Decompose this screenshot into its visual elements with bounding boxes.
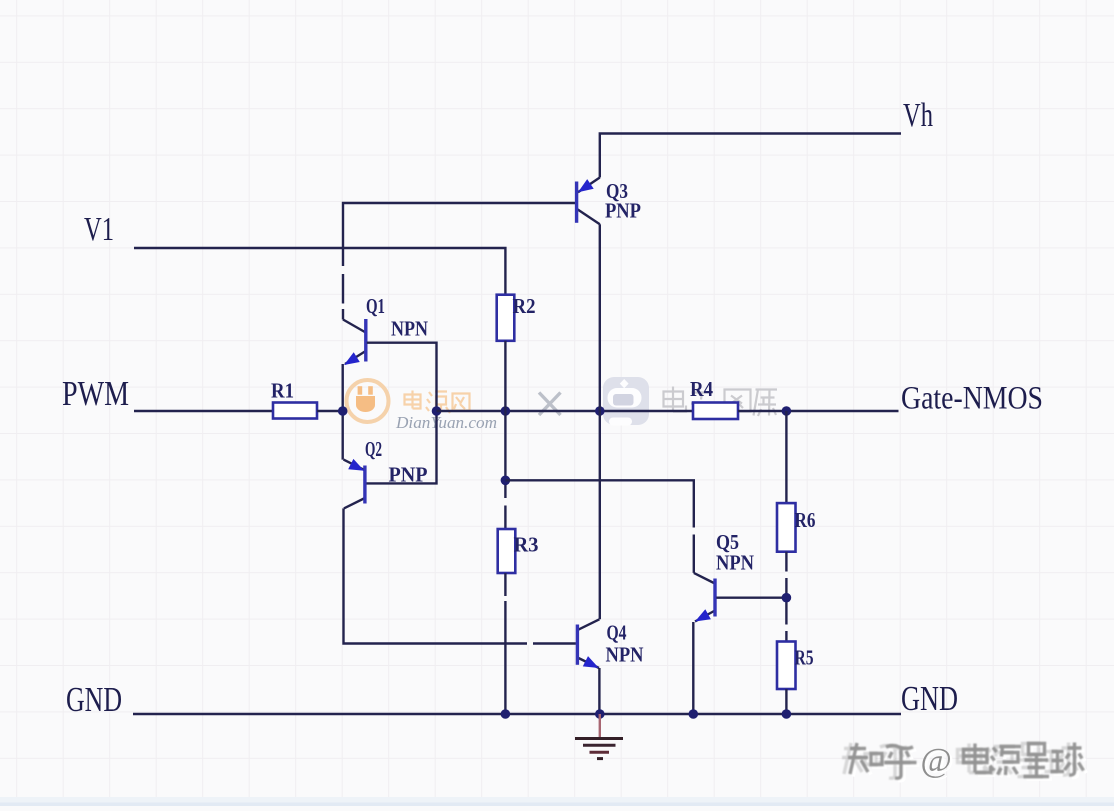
wire V1 to R2 top bbox=[134, 248, 505, 295]
wire R4 to Gate-NMOS bbox=[738, 410, 899, 412]
svg-text:R3: R3 bbox=[514, 533, 539, 557]
junction R2/R3 node bbox=[501, 476, 511, 486]
junction GND rail Q4 bbox=[595, 709, 605, 719]
wire Q3 emitter to Vh bbox=[600, 134, 901, 178]
wire Q5 base to R5/R6 node bbox=[716, 597, 786, 599]
bottom bar bbox=[0, 797, 1114, 806]
svg-text:Vh: Vh bbox=[903, 97, 933, 134]
junction node A bbox=[338, 406, 348, 416]
watermark text gallery bbox=[664, 387, 778, 418]
wire node B to R4 bbox=[437, 410, 694, 412]
watermark dianyuan logo bbox=[347, 380, 389, 422]
resistor R4 bbox=[690, 377, 738, 419]
junction Q3 collector column at main rail bbox=[595, 406, 605, 416]
wire R1 to node A bbox=[317, 410, 340, 412]
wire Q2 collector to Q4 base bbox=[344, 508, 576, 643]
wire Q1 base to Q2 base bbox=[366, 343, 436, 484]
junction Q5 base node bbox=[782, 593, 792, 603]
transistor Q1 bbox=[343, 294, 428, 365]
watermark cross mark bbox=[539, 393, 561, 416]
svg-text:GND: GND bbox=[901, 679, 958, 718]
wire Q3 collector to Q4 collector bbox=[599, 224, 601, 619]
svg-text:NPN: NPN bbox=[716, 551, 754, 575]
svg-text:R4: R4 bbox=[690, 377, 713, 401]
junction GND rail Q5 bbox=[689, 709, 699, 719]
svg-text:GND: GND bbox=[66, 680, 122, 719]
wire R6 bottom to R5 top bbox=[785, 552, 787, 642]
watermark robot icon bbox=[603, 377, 649, 426]
watermark zhihu bbox=[851, 745, 1087, 781]
svg-text:PWM: PWM bbox=[62, 374, 129, 413]
svg-text:Q4: Q4 bbox=[607, 621, 627, 645]
resistor R3 bbox=[498, 529, 539, 573]
wire Q5 emitter to GND rail bbox=[692, 622, 694, 714]
svg-text:R1: R1 bbox=[271, 379, 294, 403]
wire node A vertical (Q1 emitter to Q2 emitter) bbox=[342, 364, 344, 460]
transistor Q2 bbox=[344, 437, 428, 508]
wire R5 bottom to GND rail bbox=[785, 689, 787, 714]
wire Q1 collector to Q3 base bbox=[343, 203, 576, 320]
svg-text:PNP: PNP bbox=[389, 463, 428, 487]
resistor R6 bbox=[777, 503, 816, 552]
svg-text:R2: R2 bbox=[513, 294, 536, 318]
svg-text:R5: R5 bbox=[795, 646, 814, 670]
wire Q4 emitter to GND rail bbox=[598, 668, 600, 714]
wire R2 bottom to R3 top bbox=[504, 341, 506, 529]
resistor R2 bbox=[497, 294, 536, 341]
svg-text:Gate-NMOS: Gate-NMOS bbox=[901, 381, 1043, 417]
svg-text:Q2: Q2 bbox=[365, 437, 382, 461]
ground symbol bbox=[575, 714, 623, 759]
transistor Q3 bbox=[577, 178, 642, 225]
svg-text:NPN: NPN bbox=[606, 643, 644, 667]
wire pin gaps bbox=[343, 266, 786, 644]
svg-text:PNP: PNP bbox=[605, 199, 641, 223]
watermark text dianyuan bbox=[405, 391, 470, 414]
svg-text:NPN: NPN bbox=[391, 317, 428, 341]
resistor R1 bbox=[271, 379, 317, 419]
svg-text:V1: V1 bbox=[84, 211, 114, 248]
junction R2 column at main rail bbox=[501, 406, 511, 416]
svg-text:Q1: Q1 bbox=[366, 294, 385, 318]
resistor R5 bbox=[777, 642, 814, 690]
wire GND rail bbox=[133, 713, 901, 716]
transistor Q4 bbox=[577, 619, 643, 668]
svg-text:DianYuan.com: DianYuan.com bbox=[395, 413, 497, 432]
svg-text:@: @ bbox=[921, 742, 952, 779]
svg-text:R6: R6 bbox=[795, 508, 816, 532]
junction node B bbox=[432, 406, 442, 416]
junction R6 column at main rail bbox=[782, 406, 792, 416]
wire R3 bottom to GND rail bbox=[504, 573, 506, 714]
wire PWM to R1 bbox=[134, 410, 273, 412]
wire R2/R3 node to Q5 collector bbox=[505, 480, 693, 573]
wire main rail to R6 top bbox=[785, 411, 787, 503]
junction GND rail R5 bbox=[782, 709, 792, 719]
transistor Q5 bbox=[694, 530, 754, 622]
junction GND rail R3 bbox=[501, 709, 511, 719]
